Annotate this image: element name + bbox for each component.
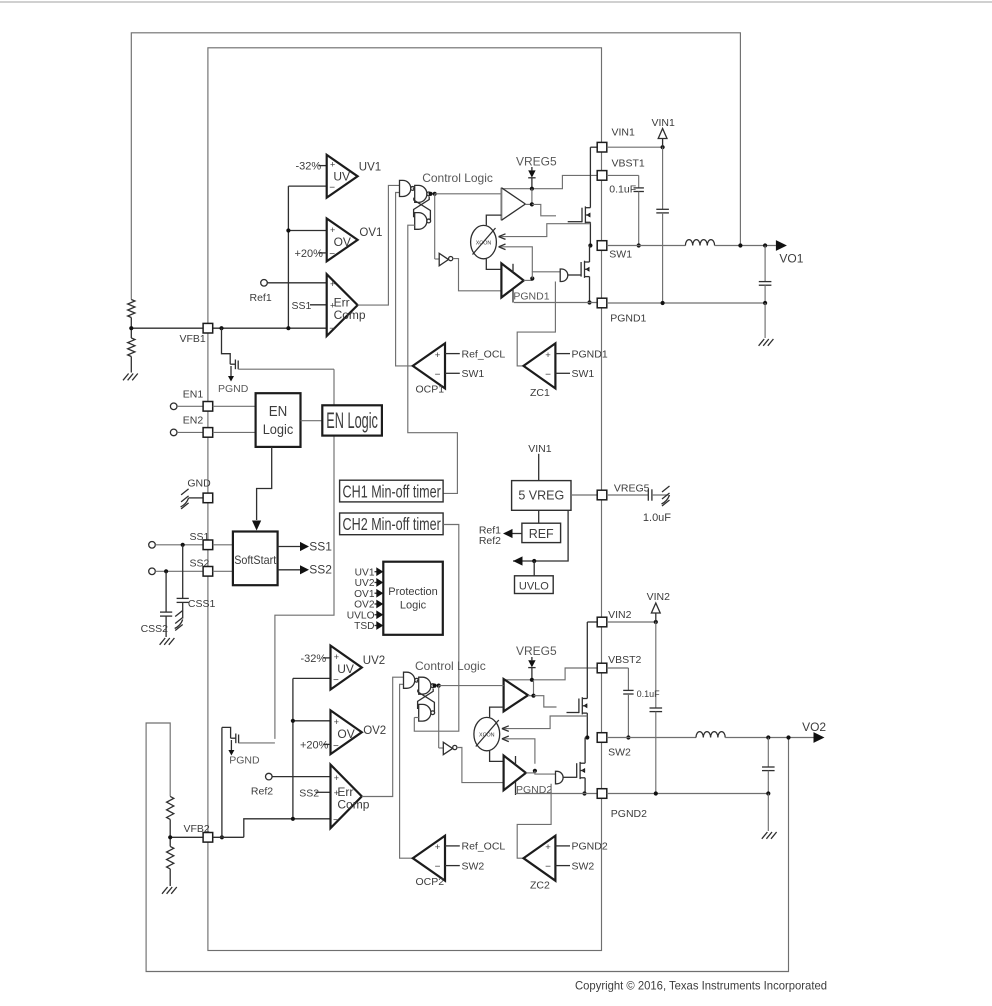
- svg-text:−: −: [329, 249, 335, 260]
- nand gate N3 ch1 (SR latch): [415, 213, 431, 230]
- wire LS driver stubs ch1: [512, 264, 514, 303]
- wire latch output to HS driver ch1: [435, 193, 502, 195]
- comparator OCP2: [413, 836, 445, 881]
- diode VREG5 ch1: [528, 167, 535, 189]
- wire inverter to LS driver ch1: [453, 259, 502, 291]
- label OCP2: [416, 876, 445, 888]
- svg-text:Ref2: Ref2: [251, 786, 273, 798]
- comparator OCP1: [413, 343, 445, 388]
- supply symbol VIN2: [647, 591, 671, 622]
- wire HS gate lead ch1: [568, 221, 582, 223]
- protection input OV1: [354, 589, 383, 600]
- svg-text:VO2: VO2: [802, 720, 826, 734]
- svg-text:−: −: [329, 324, 335, 335]
- svg-text:UVLO: UVLO: [519, 580, 549, 592]
- pin SW1: [597, 241, 632, 261]
- pin VIN1: [597, 126, 635, 152]
- wire VFB2 to Err2: [213, 819, 331, 838]
- svg-text:+: +: [334, 773, 339, 783]
- svg-text:Comp: Comp: [334, 308, 366, 322]
- pin GND: [187, 477, 212, 502]
- svg-text:PGND2: PGND2: [611, 808, 647, 820]
- junction Err inverting: [286, 326, 290, 330]
- svg-text:SW1: SW1: [609, 248, 632, 260]
- terminal EN1: [170, 388, 203, 409]
- junction VO1 loop: [738, 243, 742, 247]
- junction UVLO: [532, 559, 536, 563]
- svg-text:SS1: SS1: [309, 539, 332, 553]
- svg-text:UV2: UV2: [355, 578, 375, 589]
- svg-text:UV2: UV2: [363, 655, 385, 667]
- svg-text:OCP1: OCP1: [416, 384, 445, 396]
- svg-text:CH2 Min-off timer: CH2 Min-off timer: [343, 514, 441, 534]
- label Ref_OCL ch1: [445, 348, 505, 360]
- svg-text:−: −: [329, 182, 335, 193]
- arrow VO2: [814, 732, 825, 743]
- inductor L2: [696, 732, 725, 738]
- wire VIN1 to 5VREG: [538, 454, 540, 481]
- arrow Ref1 Ref2 out: [479, 524, 522, 547]
- junction HS driver output ch2: [531, 694, 535, 698]
- svg-text:5 VREG: 5 VREG: [518, 489, 564, 503]
- comparator OV2: [331, 710, 362, 754]
- svg-text:VFB2: VFB2: [184, 823, 210, 835]
- wire OV2 noninverting input: [291, 719, 331, 723]
- wire EN Logic to SoftStart: [252, 447, 272, 531]
- wire PGND1 external: [607, 302, 765, 304]
- junction SS2 css: [164, 569, 168, 573]
- svg-text:PGND1: PGND1: [610, 312, 646, 324]
- svg-text:SS1: SS1: [292, 300, 312, 312]
- block REF: [522, 523, 561, 542]
- capacitor bootstrap 0.1uF ch2: [607, 668, 660, 738]
- svg-text:OV: OV: [334, 235, 351, 249]
- wire VIN2 external: [607, 621, 656, 623]
- junction VIN2: [654, 620, 658, 624]
- wire inverter to LS driver ch2: [457, 748, 504, 783]
- arrow VO1: [776, 240, 787, 251]
- svg-text:−: −: [333, 815, 339, 826]
- label PGND1 zc ch1: [555, 348, 607, 360]
- label ZC2: [530, 880, 550, 892]
- svg-text:SW2: SW2: [608, 747, 631, 759]
- pin VFB1: [180, 323, 213, 345]
- nand gate N2 ch2 (SR latch): [417, 677, 435, 694]
- wire XCON top ch1: [486, 215, 501, 225]
- label +20% ch2: [300, 739, 331, 751]
- svg-text:+20%: +20%: [300, 739, 329, 751]
- svg-text:SW2: SW2: [572, 860, 595, 872]
- capacitor VIN1 input: [656, 147, 669, 303]
- ground VREG5: [662, 486, 670, 506]
- block EN Logic 2: [322, 405, 382, 435]
- wire HS source to SW1: [588, 222, 592, 247]
- svg-text:SW1: SW1: [462, 368, 485, 380]
- svg-text:Control Logic: Control Logic: [415, 659, 486, 673]
- label Ref_OCL ch2: [445, 841, 505, 853]
- junction LS driver output ch1: [530, 276, 534, 280]
- svg-text:UV1: UV1: [359, 161, 381, 173]
- svg-text:UVLO: UVLO: [347, 610, 375, 621]
- junction VFB2 internal: [220, 835, 224, 839]
- block Protection Logic: [383, 562, 443, 635]
- IC boundary box: [208, 48, 602, 951]
- svg-text:OV1: OV1: [359, 227, 382, 239]
- svg-text:REF: REF: [529, 527, 554, 541]
- junction PGND2 outcap: [766, 791, 770, 795]
- wire PGND2 external: [607, 793, 769, 795]
- wire PGND1 internal: [514, 302, 597, 304]
- svg-text:EN1: EN1: [183, 388, 204, 400]
- resistor divider lower R ch2: [167, 846, 174, 886]
- svg-text:PGND: PGND: [229, 754, 260, 766]
- wire CH2 timer to latch2: [414, 525, 459, 732]
- pin VBST1: [597, 157, 645, 180]
- pin EN1: [203, 402, 256, 412]
- protection input UV1: [355, 567, 384, 578]
- label SW2 ocp ch2: [445, 860, 484, 872]
- wire HS driver output ch1: [525, 189, 532, 205]
- svg-text:+: +: [334, 717, 339, 727]
- svg-text:PGND2: PGND2: [516, 784, 552, 796]
- svg-text:Control Logic: Control Logic: [422, 171, 493, 185]
- label Control Logic ch2: [415, 659, 486, 673]
- wire CH1 timer to latch: [408, 225, 458, 493]
- wire XCON input lower ch2: [502, 736, 535, 764]
- wire SW1 to inductor: [607, 245, 686, 247]
- svg-text:VBST1: VBST1: [612, 157, 645, 169]
- wire LS drain to SW2: [584, 738, 586, 764]
- gate driver low-side ch1: [501, 263, 523, 297]
- inverter ch1: [439, 253, 453, 265]
- svg-text:Ref_OCL: Ref_OCL: [462, 348, 506, 360]
- wire VO2 feedback loop: [146, 723, 788, 972]
- wire AND to LS gate ch1: [568, 274, 581, 276]
- svg-text:VBST2: VBST2: [608, 654, 641, 666]
- nand gate N2 ch1 (SR latch): [413, 185, 431, 202]
- svg-text:Logic: Logic: [400, 599, 427, 611]
- wire latch to inverter ch1: [435, 194, 440, 259]
- junction HS driver output ch1: [530, 202, 534, 206]
- and gate LS ch2: [556, 771, 564, 784]
- junction Err2 inverting: [291, 817, 295, 821]
- label +20% ch1: [295, 248, 327, 260]
- pin SS1: [203, 540, 233, 550]
- label SW1 ocp ch1: [445, 368, 484, 380]
- wire LS driver stubs ch2: [515, 756, 517, 795]
- resistor divider upper R ch2: [167, 796, 174, 819]
- copyright: [575, 979, 827, 993]
- wire VREG5 rail to VBST2: [504, 668, 597, 680]
- terminal Ref1: [261, 280, 327, 287]
- label PGND1 driver ch1: [513, 290, 549, 302]
- junction VIN1: [661, 145, 665, 149]
- wire VIN1 external: [607, 146, 663, 148]
- wire EN boxes: [301, 420, 323, 422]
- pin PGND1: [597, 298, 646, 324]
- nand gate N1 ch2: [404, 672, 419, 688]
- wire HS source to SW2: [585, 713, 589, 740]
- terminal SS1: [149, 542, 203, 549]
- block SoftStart: [233, 532, 278, 586]
- discharge transistor Q-PGND ch1: [228, 360, 334, 382]
- svg-text:Ref1: Ref1: [250, 292, 272, 304]
- svg-text:SS2: SS2: [299, 788, 319, 800]
- wire LS output to AND ch2: [535, 771, 556, 774]
- wire Err1 output to latch: [358, 185, 400, 305]
- pin EN2: [203, 428, 256, 438]
- svg-text:Ref_OCL: Ref_OCL: [462, 841, 506, 853]
- wire PGND2 internal: [516, 793, 598, 795]
- svg-text:VIN1: VIN1: [652, 117, 676, 129]
- wire SW2 to inductor: [607, 737, 696, 739]
- wire latch cross-coupling ch1: [414, 197, 431, 221]
- junction latch output ch1: [429, 192, 437, 196]
- resistor divider lower R ch1: [128, 338, 135, 373]
- svg-text:SS2: SS2: [309, 563, 332, 577]
- svg-text:VREG5: VREG5: [614, 482, 650, 494]
- power MOSFET low-side ch1: [581, 261, 589, 278]
- supply symbol VIN1: [652, 117, 676, 147]
- svg-text:UV: UV: [333, 170, 350, 184]
- arrow SS2 out: [278, 563, 333, 577]
- block CH2 Min-off timer: [340, 513, 444, 535]
- terminal EN2: [170, 415, 203, 436]
- junction bootstrap SW2: [626, 735, 630, 739]
- ground output ch1: [759, 339, 774, 346]
- block 5 VREG: [512, 481, 571, 511]
- svg-text:−: −: [545, 862, 551, 873]
- ground output ch2: [762, 832, 777, 839]
- junction PGND1 outcap: [763, 301, 767, 305]
- protection input UVLO: [347, 610, 384, 621]
- label VREG5 ch1: [516, 154, 557, 168]
- pin SS2: [203, 567, 233, 577]
- svg-text:CSS1: CSS1: [188, 598, 216, 610]
- block EN Logic main: [256, 393, 301, 447]
- label SS1 pin: [190, 531, 210, 543]
- nand gate N3 ch2 (SR latch): [414, 704, 434, 721]
- junction VO2 loop: [786, 735, 790, 739]
- label Ref2: [251, 786, 273, 798]
- inductor L1: [685, 240, 714, 246]
- svg-text:OCP2: OCP2: [416, 876, 445, 888]
- label PGND2 driver ch2: [516, 784, 552, 796]
- error amplifier Err Comp ch2: [331, 765, 370, 829]
- svg-text:ZC1: ZC1: [530, 387, 550, 399]
- gate driver high-side ch1: [501, 188, 525, 221]
- wire HS drain to VIN1: [590, 147, 597, 208]
- junction VFB2 divider: [168, 835, 172, 839]
- cross-conduction block XCON ch1: [471, 225, 497, 258]
- label SS2 input: [299, 788, 330, 800]
- junction bootstrap SW1: [637, 243, 641, 247]
- wire VFB1 to discharge FET: [222, 328, 231, 364]
- wire OV1 noninverting input: [286, 228, 326, 232]
- svg-text:OV1: OV1: [354, 589, 375, 600]
- label -32% ch1: [296, 160, 327, 172]
- pin VIN2: [597, 609, 631, 627]
- protection input UV2: [355, 578, 384, 589]
- svg-text:UV: UV: [337, 662, 354, 676]
- svg-text:+20%: +20%: [295, 248, 324, 260]
- svg-text:PGND1: PGND1: [513, 290, 549, 302]
- power MOSFET high-side ch2: [579, 697, 587, 714]
- label ZC1: [530, 387, 550, 399]
- wire latch cross-coupling ch2: [418, 689, 435, 713]
- svg-text:+: +: [545, 842, 551, 853]
- wire XCON input upper ch1: [499, 224, 591, 240]
- svg-text:CH1 Min-off timer: CH1 Min-off timer: [343, 481, 441, 501]
- junction SS1 css: [181, 543, 185, 547]
- wire LS source to PGND1: [587, 277, 591, 305]
- gate driver high-side ch2: [504, 679, 528, 711]
- svg-text:0.1uF: 0.1uF: [609, 183, 636, 195]
- svg-text:0.1uF: 0.1uF: [637, 689, 661, 699]
- svg-text:GND: GND: [187, 477, 211, 489]
- junction VO2 cap: [766, 735, 770, 739]
- svg-text:VIN2: VIN2: [608, 609, 632, 621]
- wire VREG5 rail to VBST1: [501, 175, 597, 188]
- wire HS driver output ch2: [528, 680, 534, 696]
- svg-text:Copyright © 2016, Texas Instru: Copyright © 2016, Texas Instruments Inco…: [575, 979, 827, 993]
- svg-text:VREG5: VREG5: [516, 644, 557, 658]
- pin VREG5: [597, 482, 649, 500]
- wire HS gate staircase ch1: [532, 204, 556, 215]
- junction VFB1 internal: [219, 326, 223, 330]
- svg-text:OV2: OV2: [354, 600, 375, 611]
- wire PGND2 to ground: [767, 794, 769, 832]
- svg-text:-32%: -32%: [296, 160, 322, 172]
- junction PGND2 incap: [654, 791, 658, 795]
- capacitor output ch1: [759, 246, 772, 304]
- ground divider ch2: [162, 887, 177, 894]
- wire 5VREG to UVLO: [513, 510, 568, 565]
- ground CSS1: [175, 611, 183, 631]
- label SS1 input: [292, 300, 327, 312]
- svg-text:SW2: SW2: [462, 860, 485, 872]
- power MOSFET low-side ch2: [577, 762, 585, 779]
- junction LS driver output ch2: [533, 769, 537, 773]
- svg-text:+: +: [435, 350, 441, 361]
- terminal SS2: [149, 568, 203, 575]
- svg-text:EN: EN: [269, 404, 288, 420]
- svg-text:CSS2: CSS2: [141, 623, 169, 635]
- svg-text:+: +: [334, 652, 339, 662]
- wire HS gate lead ch2: [567, 712, 579, 714]
- wire VFB2 node: [170, 819, 203, 846]
- label CSS2: [141, 623, 169, 635]
- label Ref1: [250, 292, 272, 304]
- label SS2 pin: [190, 557, 210, 569]
- comparator ZC2: [524, 836, 556, 881]
- wire XCON bottom ch2: [490, 751, 504, 762]
- junction VFB1 divider: [129, 326, 133, 330]
- junction VREG5 diode ch2: [530, 678, 534, 682]
- svg-text:−: −: [333, 675, 339, 686]
- wire ZC1 to AND ch1: [517, 282, 555, 366]
- svg-text:Protection: Protection: [388, 586, 438, 598]
- label VIN1 vreg: [528, 443, 552, 455]
- svg-text:VFB1: VFB1: [180, 333, 206, 345]
- wire VFB1 node: [131, 318, 326, 339]
- ground divider ch1: [123, 374, 138, 381]
- top rule: [0, 1, 992, 3]
- wire UV2 inverting input: [293, 677, 331, 679]
- svg-text:OV: OV: [337, 727, 354, 741]
- terminal Ref2: [266, 773, 331, 780]
- svg-text:−: −: [435, 369, 441, 380]
- block UVLO: [515, 576, 554, 594]
- wire LS source to PGND2: [582, 778, 586, 796]
- label Control Logic ch1: [422, 171, 493, 185]
- svg-text:+: +: [435, 842, 441, 853]
- label OV1: [359, 227, 382, 239]
- power MOSFET high-side ch1: [582, 206, 590, 223]
- svg-text:EN2: EN2: [183, 415, 204, 427]
- svg-text:Ref2: Ref2: [479, 535, 501, 547]
- label SW1 zc ch1: [555, 368, 594, 380]
- svg-text:SW1: SW1: [572, 368, 595, 380]
- pin VFB2: [184, 823, 213, 842]
- svg-text:OV2: OV2: [363, 725, 386, 737]
- svg-text:UV1: UV1: [355, 567, 375, 578]
- svg-text:VIN1: VIN1: [528, 443, 552, 455]
- ground CSS2: [160, 638, 175, 645]
- wire OCP2 output to latch: [400, 684, 413, 858]
- svg-text:+: +: [330, 225, 335, 235]
- wire PGND1 to ground: [764, 303, 766, 338]
- pin VBST2: [597, 654, 641, 673]
- wire UV1 inverting input: [288, 185, 326, 187]
- wire XCON top ch2: [490, 707, 504, 717]
- label PGND ch2: [229, 754, 260, 766]
- capacitor output ch2: [762, 738, 775, 794]
- wire LS driver output ch1: [524, 279, 533, 281]
- label OV2: [363, 725, 386, 737]
- label SW2 zc ch2: [555, 860, 594, 872]
- wire discharge gate bus: [275, 369, 334, 739]
- svg-text:−: −: [545, 369, 551, 380]
- pin SW2: [597, 733, 631, 759]
- svg-text:+: +: [330, 159, 335, 169]
- wire VO1 feedback loop: [131, 33, 740, 300]
- wire inductor to VO1: [715, 245, 776, 247]
- label PGND ch1: [218, 383, 249, 395]
- svg-text:PGND1: PGND1: [572, 348, 608, 360]
- nand gate N1 ch1: [400, 180, 415, 196]
- junction latch output ch2: [433, 684, 441, 688]
- cross-conduction block XCON ch2: [474, 717, 500, 750]
- label VREG5 ch2: [516, 644, 557, 658]
- svg-text:VREG5: VREG5: [516, 154, 557, 168]
- wire Err2 output to latch: [362, 677, 404, 796]
- label VO1: [779, 251, 803, 265]
- svg-text:+: +: [330, 279, 335, 289]
- wire UVLO stem: [533, 561, 535, 576]
- label UV2: [363, 655, 385, 667]
- wire AND to LS gate ch2: [563, 776, 577, 778]
- label CSS1: [188, 598, 216, 610]
- svg-text:−: −: [333, 741, 339, 752]
- junction VO1 cap: [763, 243, 767, 247]
- svg-text:SoftStart: SoftStart: [234, 553, 277, 567]
- svg-text:1.0uF: 1.0uF: [643, 512, 671, 524]
- arrow SS1 out: [278, 539, 333, 553]
- svg-text:−: −: [435, 862, 441, 873]
- comparator UV2: [331, 646, 362, 690]
- svg-text:+: +: [545, 350, 551, 361]
